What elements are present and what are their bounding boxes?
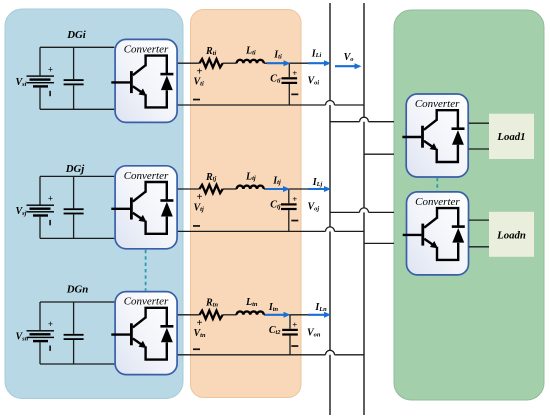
battery V_sj (27, 205, 55, 217)
dashed connector (load converters) (436, 178, 438, 191)
capacitor C_ti (282, 77, 298, 84)
svg-text:+: + (48, 193, 53, 203)
label - (battery V_sj) (49, 220, 51, 225)
inductor L_tn (237, 311, 264, 314)
svg-text:Loadn: Loadn (496, 229, 526, 241)
wire (to positive bus) (264, 62, 330, 64)
label - (battery V_si) (49, 91, 51, 96)
inductor L_ti (237, 60, 264, 63)
capacitor (DGi filter) (64, 79, 84, 85)
inductor L_tj (237, 186, 264, 189)
wire (converter to Loadn +) (469, 219, 489, 221)
wire hop (over negative bus) (360, 208, 369, 212)
wire (row n rail to negative bus) (335, 354, 365, 356)
wire hop (row n rail over positive bus) (326, 350, 335, 355)
converter (load n) (403, 192, 469, 275)
wire (DGn capacitor top lead) (73, 302, 75, 334)
converter (DGi) (111, 39, 177, 122)
node: positive DC bus (329, 3, 331, 415)
converter (DGj) (111, 166, 177, 249)
wire (DGi top rail) (40, 46, 114, 48)
wire (DGn bottom rail) (40, 363, 114, 365)
load block Loadn (489, 212, 534, 257)
wire (row i rail to negative bus) (335, 104, 365, 106)
dashed connector (DGj to DGn converters) (145, 250, 147, 291)
arrow I_Lj (308, 186, 331, 192)
svg-text:DGj: DGj (65, 163, 86, 175)
wire (load converter 1 - input from negative bus) (364, 153, 394, 155)
wire hop (row i rail over positive bus) (326, 101, 335, 106)
svg-text:+: + (292, 320, 297, 330)
wire (converter n output +) (178, 314, 200, 316)
arrow I_ti (267, 60, 291, 66)
wire (DGi capacitor bottom lead) (73, 85, 75, 109)
capacitor C_t2 (282, 329, 298, 336)
wire (DGi bottom rail) (40, 108, 114, 110)
converter (DGn) (111, 292, 177, 375)
wire (C_ti top lead) (288, 63, 290, 77)
wire (row j return rail) (178, 230, 326, 232)
wire (converter to Loadn -) (469, 246, 489, 248)
wire (to positive bus) (264, 188, 330, 190)
wire (load converter 2 + input from positive bus) (330, 211, 360, 213)
wire hop (over negative bus) (360, 117, 369, 122)
battery V_sn (27, 330, 55, 342)
converter (load 1) (402, 94, 468, 177)
wire (to positive bus) (264, 314, 330, 316)
battery V_si (27, 75, 55, 87)
label - (V_tj) (193, 225, 200, 227)
label - (V_tn) (193, 348, 200, 350)
wire (row i return rail) (178, 104, 326, 106)
arrow I_tj (266, 186, 290, 192)
wire (369, 211, 395, 213)
wire (223, 314, 237, 316)
svg-text:+: + (48, 319, 53, 329)
arrow I_Li (308, 60, 331, 66)
wire (DGj capacitor top lead) (73, 176, 75, 208)
load block Load1 (489, 114, 534, 159)
panel: loads (green) (394, 10, 544, 400)
node: negative DC bus (363, 3, 365, 415)
wire (DGn capacitor bottom lead) (73, 340, 75, 364)
panel: DG sources (blue) (5, 9, 183, 399)
wire hop (row j rail over positive bus) (326, 227, 335, 232)
arrow V_o (335, 63, 362, 69)
panel: line filters (orange) (191, 10, 302, 398)
wire (load converter 2 - input from negative bus) (364, 242, 394, 244)
wire (load converter 1 + input from positive bus) (330, 121, 360, 123)
resistor R_tj (200, 185, 223, 193)
capacitor (DGn filter) (64, 334, 84, 340)
label - (V_ti) (193, 99, 200, 101)
resistor R_ti (200, 59, 223, 67)
arrow I_tn (265, 312, 291, 318)
label - (battery V_sn) (49, 346, 51, 351)
svg-text:Load1: Load1 (496, 131, 525, 143)
label - (C_t2) (291, 345, 298, 347)
wire (converter i output +) (178, 62, 200, 64)
wire (DGi capacitor top lead) (73, 47, 75, 79)
wire (DGj top rail) (40, 175, 114, 177)
wire (battery V_sn bottom lead) (39, 342, 41, 364)
wire (battery V_sj top lead) (39, 176, 41, 204)
wire (battery V_si bottom lead) (39, 88, 41, 110)
arrow I_Ln (308, 312, 331, 318)
resistor R_tn (200, 311, 223, 319)
capacitor (DGj filter) (64, 208, 84, 214)
wire (369, 121, 395, 123)
capacitor C_tj (281, 203, 297, 210)
svg-text:+: + (292, 68, 297, 78)
wire (C_ti bottom lead) (288, 84, 290, 105)
wire (battery V_sj bottom lead) (39, 217, 41, 239)
svg-text:+: + (48, 64, 53, 74)
wire (C_t2 bottom lead) (289, 336, 291, 355)
wire (DGj bottom rail) (40, 237, 114, 239)
wire (C_tj bottom lead) (288, 210, 290, 231)
wire (C_tj top lead) (288, 189, 290, 203)
label - (C_ti) (291, 94, 298, 96)
svg-text:DGn: DGn (66, 284, 89, 296)
label - (C_tj) (291, 220, 298, 222)
wire (row j rail to negative bus) (335, 230, 365, 232)
wire (223, 188, 237, 190)
wire (battery V_si top lead) (39, 47, 41, 75)
wire (223, 62, 237, 64)
svg-text:+: + (292, 194, 297, 204)
wire (row n return rail) (178, 354, 326, 356)
svg-text:DGi: DGi (66, 29, 86, 41)
wire (converter to Load1 -) (469, 148, 489, 150)
wire (DGn top rail) (40, 301, 114, 303)
wire (C_t2 top lead) (289, 315, 291, 329)
wire (battery V_sn top lead) (39, 302, 41, 330)
wire (converter j output +) (178, 188, 200, 190)
wire (converter to Load1 +) (469, 122, 489, 124)
wire (DGj capacitor bottom lead) (73, 214, 75, 238)
